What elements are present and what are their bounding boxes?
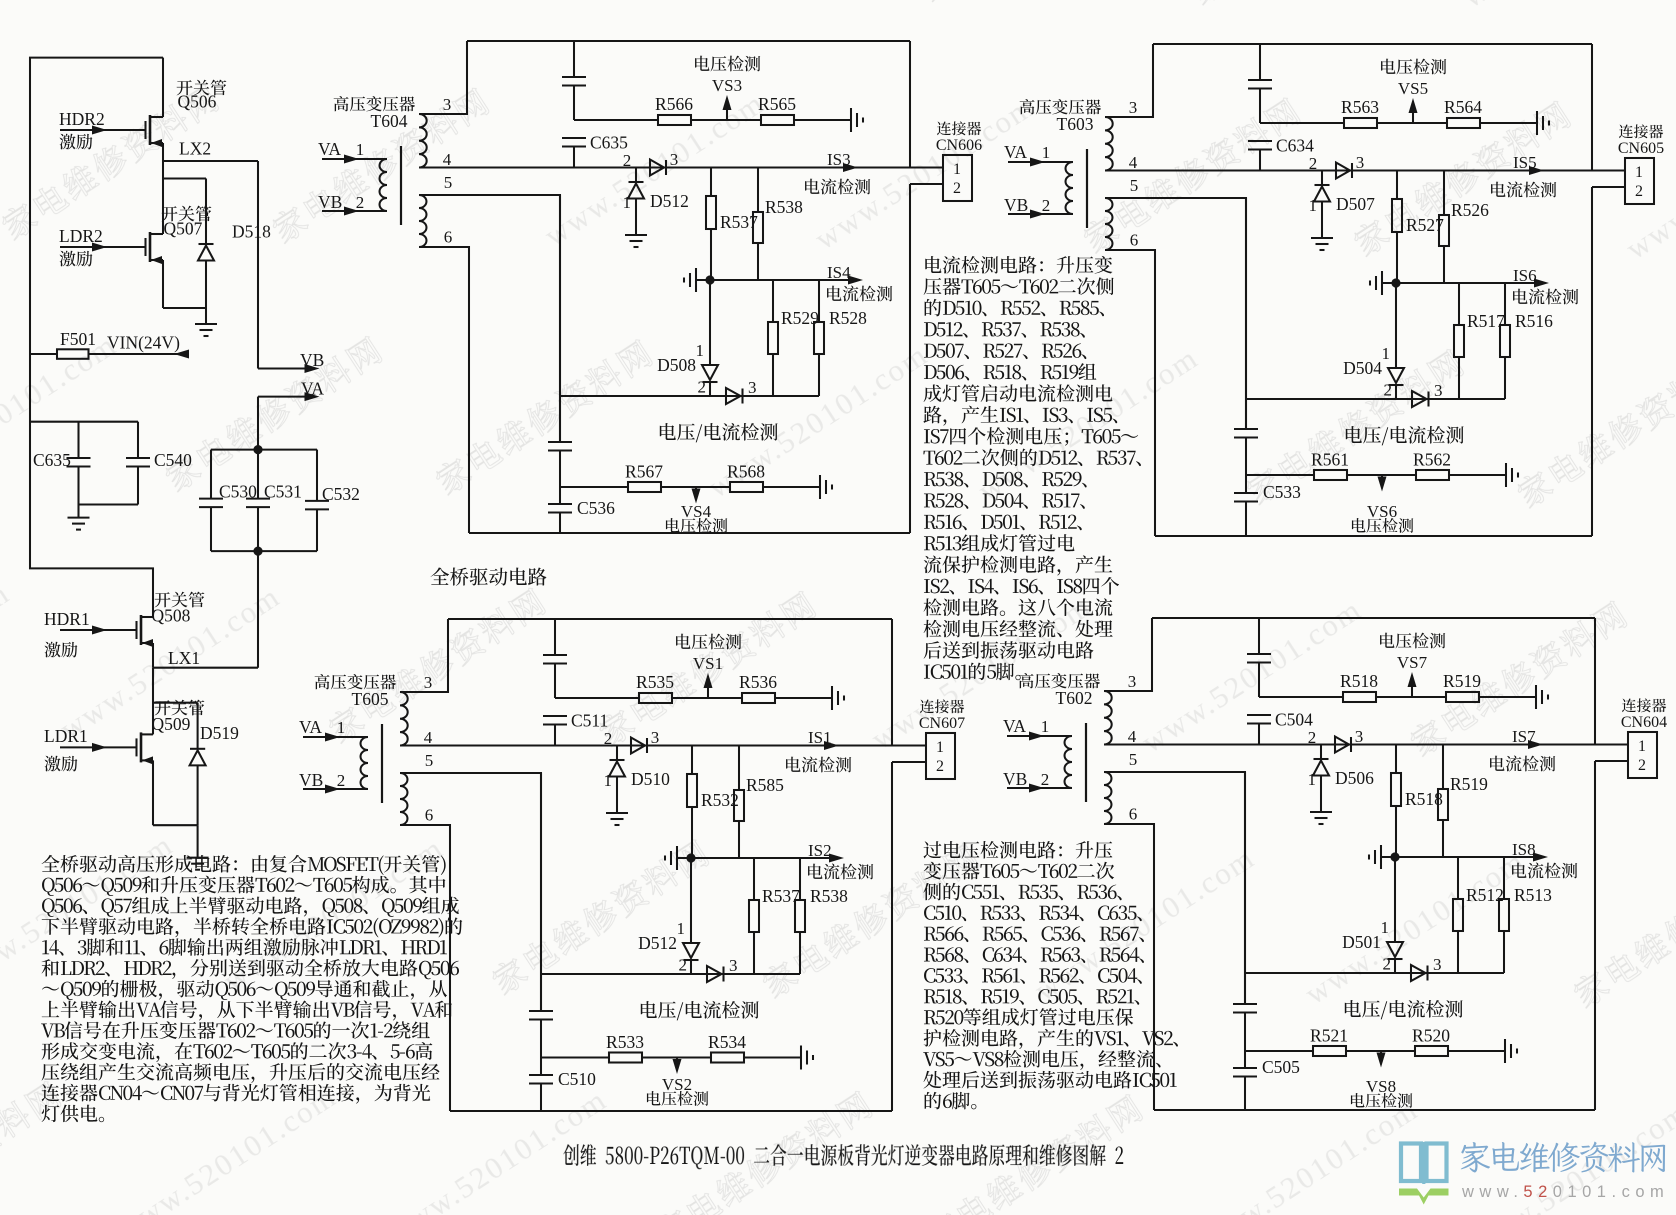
svg-text:D506: D506 — [1335, 768, 1374, 788]
svg-text:2: 2 — [1309, 154, 1318, 173]
svg-text:2: 2 — [936, 758, 944, 775]
resistor R512 — [1457, 857, 1459, 899]
svg-text:R585: R585 — [746, 775, 784, 795]
ground below D507 — [1311, 237, 1333, 239]
svg-text:2: 2 — [1383, 955, 1392, 974]
text paragraph full-bridge description — [42, 855, 446, 875]
svg-text:2: 2 — [1308, 728, 1317, 747]
svg-text:5: 5 — [1130, 176, 1139, 195]
resistor R535 — [639, 693, 672, 703]
text title — [563, 1144, 1123, 1169]
wire IS4 line — [696, 279, 857, 281]
svg-text:C505: C505 — [1262, 1057, 1300, 1077]
label voltage/current sense — [660, 423, 778, 442]
ground below D512 — [625, 234, 647, 236]
svg-text:R566: R566 — [655, 94, 693, 114]
svg-text:2: 2 — [604, 729, 613, 748]
resistor R528 — [818, 280, 820, 322]
svg-text:R561: R561 — [1311, 450, 1349, 470]
svg-text:2: 2 — [698, 378, 707, 397]
wire divider1 — [1260, 122, 1344, 124]
svg-text:IS2: IS2 — [808, 841, 832, 860]
svg-text:3: 3 — [1433, 955, 1442, 974]
svg-text:1: 1 — [337, 718, 346, 737]
capacitor C530 — [210, 450, 212, 499]
transistor Q508 — [135, 621, 137, 639]
svg-text:C540: C540 — [154, 450, 192, 470]
diode D504 — [1395, 283, 1397, 368]
capacitor top of block — [1258, 618, 1260, 654]
resistor R567 — [628, 482, 661, 492]
svg-text:3: 3 — [1356, 153, 1365, 172]
ground right of R536 — [831, 686, 833, 710]
svg-text:3: 3 — [748, 378, 757, 397]
svg-text:1: 1 — [604, 771, 613, 790]
resistor R564 — [1447, 118, 1480, 128]
svg-text:2: 2 — [679, 956, 688, 975]
node VS1 voltage sense — [707, 681, 709, 698]
svg-text:4: 4 — [443, 150, 452, 169]
node LDR1 input — [60, 746, 137, 748]
wire IS6 line — [1382, 282, 1543, 284]
resistor R519 — [1446, 692, 1479, 702]
node VA — [258, 396, 312, 398]
svg-text:C531: C531 — [264, 482, 302, 502]
node VA to T604 pin1 — [322, 158, 387, 160]
connector CN604 — [1595, 743, 1628, 745]
wire left rail — [30, 58, 163, 617]
svg-text:HDR1: HDR1 — [44, 609, 90, 629]
svg-text:IS5: IS5 — [1513, 153, 1537, 172]
ground right of R534 — [800, 1046, 802, 1070]
svg-text:3: 3 — [424, 673, 433, 692]
svg-text:R519: R519 — [1450, 774, 1488, 794]
svg-text:LX1: LX1 — [168, 648, 200, 668]
svg-text:T604: T604 — [371, 111, 408, 131]
connector CN606 — [910, 166, 943, 168]
svg-text:2: 2 — [356, 193, 365, 212]
capacitor lower unnamed — [1233, 1003, 1257, 1005]
transformer T604 — [334, 96, 415, 111]
wire lower rail — [560, 395, 819, 397]
logo book icon — [1401, 1142, 1447, 1184]
wire Q508 source to LX1 — [152, 643, 154, 668]
svg-text:www.520101.com: www.520101.com — [1461, 1183, 1669, 1201]
svg-text:R565: R565 — [758, 94, 796, 114]
svg-text:VA: VA — [301, 379, 324, 399]
ground left of IS8 line — [1380, 845, 1382, 869]
svg-text:VS3: VS3 — [712, 76, 742, 95]
wire lower rail — [1245, 972, 1504, 974]
capacitor C532 — [316, 450, 318, 501]
wire D518 branch — [163, 177, 206, 179]
svg-text:2: 2 — [1384, 381, 1393, 400]
resistor R568 — [730, 482, 763, 492]
svg-text:1: 1 — [936, 739, 944, 756]
svg-text:R562: R562 — [1413, 450, 1451, 470]
svg-text:VA: VA — [1004, 142, 1027, 162]
node VS8 voltage sense — [1380, 1051, 1382, 1060]
ground below D518 — [205, 308, 207, 324]
resistor R538 — [799, 858, 801, 900]
node VS6 voltage sense — [1381, 475, 1383, 484]
transistor Q507 — [144, 238, 146, 256]
svg-text:VB: VB — [300, 350, 324, 370]
svg-text:IS8: IS8 — [1512, 840, 1536, 859]
svg-text:6: 6 — [444, 228, 453, 247]
label voltage/current sense — [1345, 1000, 1463, 1019]
svg-text:R535: R535 — [636, 672, 674, 692]
transistor Q509 — [135, 738, 137, 756]
svg-text:C635: C635 — [33, 450, 71, 470]
resistor R536 — [742, 693, 775, 703]
svg-text:2: 2 — [1042, 196, 1051, 215]
svg-text:R567: R567 — [625, 462, 663, 482]
svg-text:3: 3 — [1434, 381, 1443, 400]
wire cap group bottom — [79, 503, 139, 505]
text paragraph overvoltage description — [924, 841, 1113, 859]
wire Q509 source to ground — [152, 760, 154, 825]
svg-text:T603: T603 — [1057, 114, 1094, 134]
svg-text:2: 2 — [1635, 183, 1643, 200]
svg-text:C511: C511 — [571, 711, 608, 731]
svg-text:VA: VA — [318, 139, 341, 159]
svg-text:HDR2: HDR2 — [59, 109, 105, 129]
svg-text:R536: R536 — [739, 672, 777, 692]
svg-text:1: 1 — [1041, 717, 1050, 736]
node VS5 voltage sense — [1412, 106, 1414, 123]
svg-text:R533: R533 — [606, 1032, 644, 1052]
transformer T602 — [1019, 673, 1100, 688]
svg-text:VA: VA — [299, 717, 322, 737]
resistor R513 — [1503, 857, 1505, 899]
resistor R563 — [1344, 118, 1377, 128]
svg-text:Q507: Q507 — [164, 219, 203, 239]
svg-text:D510: D510 — [631, 769, 670, 789]
wire block right edge — [909, 41, 911, 168]
diode D512 — [690, 858, 692, 943]
svg-text:T602: T602 — [1056, 688, 1093, 708]
svg-text:R568: R568 — [727, 462, 765, 482]
wire block top edge — [467, 40, 910, 42]
ground left of IS4 line — [695, 268, 697, 292]
capacitor C531 — [257, 450, 259, 499]
svg-text:CN604: CN604 — [1621, 714, 1667, 731]
resistor R565 — [761, 115, 794, 125]
ground left of IS6 line — [1381, 271, 1383, 295]
svg-text:1: 1 — [1638, 738, 1646, 755]
svg-text:4: 4 — [1128, 727, 1137, 746]
wire lower rail — [1246, 398, 1505, 400]
svg-text:R521: R521 — [1310, 1026, 1348, 1046]
resistor R520 — [1415, 1046, 1448, 1056]
ground right of R568 — [819, 475, 821, 499]
svg-text:R513: R513 — [1514, 885, 1552, 905]
svg-text:3: 3 — [1128, 672, 1137, 691]
capacitor C504 — [1247, 714, 1271, 716]
wire block bottom edge — [1155, 535, 1592, 537]
ground right of R565 — [850, 108, 852, 132]
wire IS2 line — [677, 857, 838, 859]
svg-text:VS2: VS2 — [662, 1075, 692, 1094]
svg-text:C635: C635 — [590, 133, 628, 153]
svg-text:1: 1 — [1042, 143, 1051, 162]
node VA to T605 pin1 — [303, 736, 368, 738]
svg-text:2: 2 — [1638, 757, 1646, 774]
ground below D510 — [606, 812, 628, 814]
svg-text:VB: VB — [1003, 769, 1027, 789]
svg-text:VB: VB — [318, 192, 342, 212]
wire divider2 — [560, 486, 628, 488]
wire VA to ladder — [257, 397, 259, 450]
capacitor top of block — [1259, 44, 1261, 80]
capacitor C635a — [77, 422, 79, 458]
svg-text:R538: R538 — [765, 197, 803, 217]
svg-text:3: 3 — [443, 95, 452, 114]
node HDR1 input — [60, 629, 137, 631]
ground right of R562 — [1505, 463, 1507, 487]
node VA to T603 pin1 — [1008, 161, 1073, 163]
svg-text:C532: C532 — [322, 484, 360, 504]
svg-text:6: 6 — [1130, 231, 1139, 250]
wire divider2 — [1246, 474, 1314, 476]
svg-text:Q508: Q508 — [152, 606, 191, 626]
wire block bottom edge — [1154, 1109, 1595, 1111]
wire ladder top rail — [211, 449, 317, 451]
wire pin4 rail — [400, 744, 892, 746]
svg-text:1: 1 — [1382, 344, 1391, 363]
capacitor C510 — [540, 1058, 542, 1076]
svg-text:Q509: Q509 — [152, 714, 191, 734]
svg-text:C510: C510 — [558, 1069, 596, 1089]
capacitor C634 — [1248, 140, 1272, 142]
svg-text:VB: VB — [299, 770, 323, 790]
svg-text:CN606: CN606 — [936, 137, 982, 154]
capacitor lower unnamed — [548, 441, 572, 443]
svg-text:T605: T605 — [352, 689, 389, 709]
svg-text:1: 1 — [1635, 164, 1643, 181]
transistor Q506 — [144, 121, 146, 139]
capacitor lower unnamed — [529, 1010, 553, 1012]
svg-text:3: 3 — [670, 150, 679, 169]
node HDR2 input — [60, 129, 146, 131]
wire LX2 to Q507 drain — [162, 161, 164, 221]
resistor R537 — [753, 858, 755, 900]
ground left of IS2 line — [676, 846, 678, 870]
svg-text:VS7: VS7 — [1397, 653, 1428, 672]
node VA to T602 pin1 — [1007, 735, 1072, 737]
resistor R561 — [1314, 470, 1347, 480]
wire IS8 line — [1381, 856, 1542, 858]
diode D519 — [190, 748, 205, 750]
connector CN605 — [1592, 169, 1625, 171]
resistor R538 — [757, 168, 759, 213]
svg-text:R520: R520 — [1412, 1026, 1450, 1046]
node VB to T604 pin2 — [322, 210, 387, 212]
svg-text:D508: D508 — [657, 355, 696, 375]
svg-text:R538: R538 — [810, 886, 848, 906]
svg-text:R518: R518 — [1340, 671, 1378, 691]
svg-text:5: 5 — [444, 173, 453, 192]
wire divider2 — [1245, 1050, 1313, 1052]
wire divider1 — [574, 119, 658, 121]
svg-text:IS1: IS1 — [808, 728, 832, 747]
label full-bridge drive — [431, 567, 547, 585]
svg-text:5: 5 — [425, 751, 434, 770]
label voltage/current sense — [1346, 426, 1464, 445]
node LDR2 input — [60, 246, 146, 248]
wire Q507 source to ground — [162, 260, 164, 308]
resistor R516 — [1504, 283, 1506, 325]
transformer T603 — [1020, 99, 1101, 114]
svg-text:6: 6 — [425, 806, 434, 825]
svg-text:CN607: CN607 — [919, 715, 965, 732]
node VS2 voltage sense — [676, 1058, 678, 1067]
node VS4 voltage sense — [695, 487, 697, 496]
svg-text:3: 3 — [651, 728, 660, 747]
svg-text:R526: R526 — [1451, 200, 1489, 220]
svg-text:R563: R563 — [1341, 97, 1379, 117]
wire pin5 column — [1245, 198, 1247, 429]
svg-text:1: 1 — [1309, 196, 1318, 215]
svg-text:IS6: IS6 — [1513, 266, 1537, 285]
svg-text:D518: D518 — [232, 222, 271, 242]
svg-text:1: 1 — [623, 193, 632, 212]
svg-text:R564: R564 — [1444, 97, 1482, 117]
resistor R527 — [1396, 171, 1398, 200]
svg-text:IS7: IS7 — [1512, 727, 1536, 746]
svg-text:VIN(24V): VIN(24V) — [107, 333, 180, 353]
svg-text:R519: R519 — [1443, 671, 1481, 691]
svg-text:D519: D519 — [200, 723, 239, 743]
capacitor C511 — [543, 715, 567, 717]
svg-text:3: 3 — [1129, 98, 1138, 117]
wire block bottom edge — [469, 532, 910, 534]
svg-text:1: 1 — [1381, 918, 1390, 937]
wire block top edge — [448, 618, 892, 620]
resistor R529 — [772, 280, 774, 322]
wire lower rail — [541, 973, 800, 975]
wire pin4 rail — [1105, 169, 1592, 171]
resistor R518 — [1395, 745, 1397, 774]
svg-text:2: 2 — [1041, 770, 1050, 789]
wire block bottom edge — [450, 1110, 892, 1112]
svg-text:VS4: VS4 — [681, 502, 712, 521]
transformer T605 — [315, 674, 396, 689]
svg-text:VS5: VS5 — [1398, 79, 1428, 98]
label voltage/current sense — [641, 1001, 759, 1020]
svg-text:F501: F501 — [60, 329, 96, 349]
svg-text:4: 4 — [424, 728, 433, 747]
node VB to T603 pin2 — [1008, 213, 1073, 215]
svg-text:1: 1 — [677, 919, 686, 938]
wire pin5 column — [559, 195, 561, 442]
svg-text:D507: D507 — [1336, 194, 1375, 214]
svg-text:VS8: VS8 — [1366, 1077, 1396, 1096]
diode D508 — [709, 280, 711, 365]
capacitor lower unnamed — [1234, 428, 1258, 430]
capacitor C536 — [559, 487, 561, 504]
resistor R585 — [738, 746, 740, 791]
svg-text:2: 2 — [623, 151, 632, 170]
svg-text:LX2: LX2 — [179, 139, 211, 159]
wire block right edge — [1594, 618, 1596, 745]
svg-text:LDR1: LDR1 — [44, 726, 88, 746]
wire LX1 to Q509 drain — [152, 668, 154, 735]
wire pin4 rail — [1104, 743, 1595, 745]
resistor R518 — [1343, 692, 1376, 702]
svg-text:D504: D504 — [1343, 358, 1382, 378]
node VB to T602 pin2 — [1007, 787, 1072, 789]
resistor R533 — [609, 1053, 642, 1063]
svg-text:5: 5 — [1129, 750, 1138, 769]
node VB — [258, 367, 312, 369]
svg-text:1: 1 — [953, 161, 961, 178]
wire cap group rail — [30, 421, 138, 423]
capacitor C635 — [562, 137, 586, 139]
svg-text:R534: R534 — [708, 1032, 746, 1052]
resistor R534 — [711, 1053, 744, 1063]
capacitor top of block — [554, 619, 556, 655]
wire pin5 column — [540, 773, 542, 1011]
svg-text:D501: D501 — [1342, 932, 1381, 952]
wire divider2 — [541, 1056, 609, 1058]
node VS7 voltage sense — [1411, 680, 1413, 697]
wire block right edge — [891, 619, 893, 746]
svg-text:C634: C634 — [1276, 136, 1314, 156]
wire pin4 rail — [419, 166, 910, 168]
node VIN(24V) — [89, 353, 188, 355]
ground right of R520 — [1504, 1039, 1506, 1063]
svg-text:IS3: IS3 — [827, 150, 851, 169]
node VS3 voltage sense — [726, 103, 728, 120]
resistor R566 — [658, 115, 691, 125]
resistor R562 — [1416, 470, 1449, 480]
wire divider1 — [1259, 696, 1343, 698]
svg-text:D512: D512 — [638, 933, 677, 953]
svg-text:2: 2 — [953, 180, 961, 197]
svg-text:VS1: VS1 — [693, 654, 723, 673]
resistor R532 — [691, 746, 693, 775]
wire ladder bottom rail — [211, 550, 317, 552]
svg-text:3: 3 — [729, 956, 738, 975]
wire divider1 — [555, 697, 639, 699]
resistor R521 — [1313, 1046, 1346, 1056]
resistor R519 — [1442, 745, 1444, 790]
wire D519 branch — [153, 702, 198, 704]
svg-text:IS4: IS4 — [827, 263, 851, 282]
svg-text:Q506: Q506 — [178, 92, 217, 112]
connector CN607 — [892, 744, 926, 746]
svg-text:D512: D512 — [650, 191, 689, 211]
svg-text:LDR2: LDR2 — [59, 226, 103, 246]
logo site name — [1461, 1142, 1666, 1173]
capacitor top of block — [573, 41, 575, 77]
wire block right edge — [1591, 44, 1593, 171]
svg-text:1: 1 — [1308, 770, 1317, 789]
svg-text:R516: R516 — [1515, 311, 1553, 331]
resistor R537 — [710, 168, 712, 197]
svg-text:C536: C536 — [577, 498, 615, 518]
text paragraph current-detect description — [925, 256, 1112, 274]
svg-text:1: 1 — [696, 341, 705, 360]
capacitor C540 — [137, 422, 139, 458]
svg-text:C504: C504 — [1275, 710, 1313, 730]
capacitor C505 — [1244, 1051, 1246, 1068]
fuse F501 — [30, 353, 57, 355]
ground below D506 — [1310, 811, 1332, 813]
svg-text:1: 1 — [356, 140, 365, 159]
